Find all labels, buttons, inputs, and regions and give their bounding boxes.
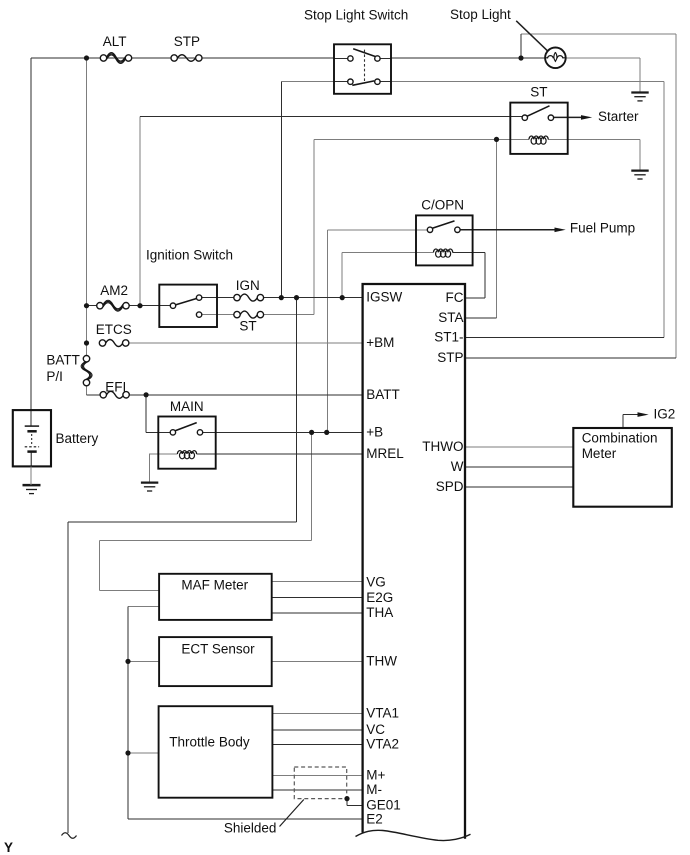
svg-text:FC: FC — [446, 290, 464, 305]
svg-text:P/I: P/I — [46, 369, 63, 384]
svg-text:Stop Light Switch: Stop Light Switch — [304, 7, 408, 22]
svg-text:ST1-: ST1- — [434, 330, 463, 345]
svg-text:E2: E2 — [366, 812, 383, 827]
svg-text:ST: ST — [239, 318, 256, 333]
svg-text:E2G: E2G — [366, 590, 393, 605]
svg-text:THWO: THWO — [422, 439, 463, 454]
svg-text:Starter: Starter — [598, 109, 639, 124]
svg-text:THA: THA — [366, 605, 393, 620]
svg-text:M+: M+ — [366, 767, 385, 782]
svg-text:SPD: SPD — [436, 479, 464, 494]
svg-text:GE01: GE01 — [366, 798, 401, 813]
svg-text:MAIN: MAIN — [170, 399, 204, 414]
svg-text:C/OPN: C/OPN — [421, 197, 464, 212]
svg-text:Fuel Pump: Fuel Pump — [570, 221, 635, 236]
svg-text:VC: VC — [366, 722, 385, 737]
svg-text:STP: STP — [437, 350, 463, 365]
svg-text:ALT: ALT — [103, 34, 127, 49]
svg-text:IG2: IG2 — [654, 406, 676, 421]
svg-text:STP: STP — [174, 34, 200, 49]
svg-text:STA: STA — [438, 310, 463, 325]
svg-text:EFI: EFI — [105, 379, 126, 394]
svg-text:Shielded: Shielded — [224, 821, 277, 836]
svg-text:ECT Sensor: ECT Sensor — [181, 641, 255, 656]
svg-text:IGSW: IGSW — [366, 290, 402, 305]
svg-text:THW: THW — [366, 653, 397, 668]
svg-text:MREL: MREL — [366, 446, 404, 461]
svg-text:VG: VG — [366, 575, 386, 590]
svg-text:VTA1: VTA1 — [366, 706, 399, 721]
svg-text:+BM: +BM — [366, 335, 394, 350]
svg-text:Y: Y — [4, 840, 13, 855]
svg-text:W: W — [451, 459, 464, 474]
svg-text:+B: +B — [366, 424, 383, 439]
svg-text:Combination: Combination — [582, 431, 658, 446]
svg-text:ETCS: ETCS — [96, 322, 132, 337]
svg-text:Throttle Body: Throttle Body — [169, 734, 250, 749]
svg-text:Battery: Battery — [56, 431, 99, 446]
svg-text:BATT: BATT — [46, 352, 80, 367]
svg-text:Ignition Switch: Ignition Switch — [146, 247, 233, 262]
svg-text:MAF Meter: MAF Meter — [181, 577, 248, 592]
svg-text:VTA2: VTA2 — [366, 737, 399, 752]
svg-text:M-: M- — [366, 782, 382, 797]
svg-text:BATT: BATT — [366, 387, 400, 402]
svg-text:IGN: IGN — [236, 278, 260, 293]
svg-text:Stop Light: Stop Light — [450, 7, 511, 22]
svg-text:Meter: Meter — [582, 446, 617, 461]
svg-text:ST: ST — [530, 84, 547, 99]
svg-text:AM2: AM2 — [100, 283, 128, 298]
